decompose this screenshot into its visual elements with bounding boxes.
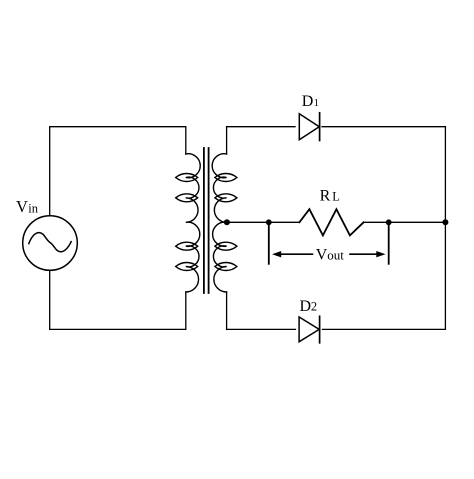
- wire top-left (source to primary): [50, 126, 186, 128]
- transformer T1 primary winding: [176, 154, 201, 292]
- wire left lower (source down to bottom wire): [49, 270, 51, 329]
- svg-text:L: L: [332, 189, 340, 203]
- wire load to right rail: [364, 221, 446, 223]
- Vout probe bar left: [268, 222, 270, 263]
- svg-text:in: in: [28, 202, 38, 216]
- transformer T1 secondary lead top: [226, 127, 228, 154]
- label Vin: [16, 197, 39, 216]
- diode D2: [299, 316, 320, 343]
- wire top-right (D1 to right rail): [322, 126, 445, 128]
- transformer T1 core: [204, 148, 209, 293]
- transformer T1 primary lead top: [185, 127, 187, 154]
- center-tap junction dot: [224, 219, 230, 225]
- primary lens loop 4: [176, 262, 198, 270]
- transformer T1 secondary lead bottom: [226, 292, 228, 329]
- wire bottom (secondary to D2): [227, 328, 296, 330]
- svg-text:1: 1: [314, 98, 319, 109]
- Vout arrow right: [350, 251, 386, 257]
- svg-text:D: D: [300, 298, 312, 315]
- primary lens loop 2: [176, 194, 198, 202]
- resistor RL: [299, 209, 363, 235]
- diode D1: [299, 113, 319, 141]
- Vout probe bar right: [388, 222, 390, 263]
- primary lens loop 3: [176, 242, 198, 250]
- wire center tap to load: [229, 221, 299, 223]
- source AC V-in U1: [23, 216, 78, 271]
- transformer T1 primary lead bottom: [185, 292, 187, 329]
- wire left upper (top wire down to source): [49, 127, 51, 216]
- svg-text:R: R: [320, 188, 331, 205]
- label Vout: [316, 247, 344, 264]
- label D1: [302, 93, 319, 110]
- svg-text:out: out: [327, 248, 344, 263]
- node right rail junction dot: [442, 219, 448, 225]
- label RL: [320, 188, 340, 205]
- wire bottom-left (to primary bottom lead): [50, 328, 186, 330]
- node right probe junction dot: [386, 219, 392, 225]
- svg-text:V: V: [16, 197, 28, 216]
- svg-text:V: V: [316, 247, 328, 264]
- wire top (secondary to D1): [227, 126, 295, 128]
- wire bottom-right (D2 to right rail): [323, 328, 446, 330]
- wire right rail: [444, 127, 446, 330]
- transformer T1 secondary winding: [212, 154, 237, 292]
- secondary lens loop 4: [215, 262, 237, 270]
- Vout arrow left: [272, 251, 313, 257]
- svg-text:2: 2: [311, 300, 317, 314]
- primary lens loop 1: [176, 173, 198, 181]
- secondary lens loop 3: [215, 242, 237, 250]
- secondary lens loop 1: [215, 173, 237, 181]
- label D2: [300, 298, 318, 315]
- svg-text:D: D: [302, 93, 314, 110]
- node left probe junction dot: [266, 219, 272, 225]
- secondary lens loop 2: [215, 194, 237, 202]
